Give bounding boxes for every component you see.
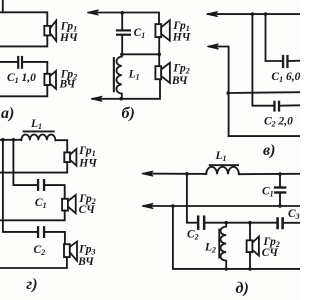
wire: C1 out to right edge [289, 60, 300, 62]
wire: Gr3 return [0, 257, 67, 268]
node: middle left [120, 53, 124, 57]
node: top rail x=265 [264, 12, 268, 16]
capacitor C2 [197, 215, 206, 230]
wire: down from tap to C2 [187, 174, 197, 223]
wire: bottom rail [93, 79, 160, 99]
svg-text:L2: L2 [204, 241, 216, 254]
input arrow top [87, 10, 98, 15]
node: bus B tap [12, 138, 16, 142]
wire: Gr2 return [0, 211, 65, 221]
wire: Gr1 return [0, 162, 67, 173]
wire: branch to C1 [266, 14, 282, 61]
node: bottom of speaker branch [248, 267, 252, 271]
wire: top rail [89, 13, 159, 25]
loudspeaker Gr1 (НЧ) [44, 21, 56, 41]
capacitor C1 [37, 179, 45, 191]
node: top of L2 [224, 221, 228, 225]
node: junction top of C1 branch [121, 11, 125, 15]
inductor L2 (vertical coil) [218, 223, 226, 269]
node: top of C1 [278, 172, 282, 176]
svg-text:б): б) [122, 105, 135, 122]
capacitor C1 (vertical) [274, 174, 286, 206]
wire: top rail left of L1 [144, 173, 207, 175]
svg-text:НЧ: НЧ [172, 32, 191, 44]
svg-text:СЧ: СЧ [262, 247, 279, 259]
wire: top rail to Gr1 [0, 12, 47, 26]
input arrow 1 [142, 171, 153, 176]
node: bus A tap [1, 138, 5, 142]
svg-text:С1: С1 [35, 197, 47, 210]
svg-text:НЧ: НЧ [78, 158, 97, 170]
svg-text:Гр1: Гр1 [78, 145, 95, 158]
svg-text:L1: L1 [30, 118, 42, 131]
svg-text:С2 2,0: С2 2,0 [264, 115, 293, 128]
capacitor C1 1,0 [17, 56, 23, 69]
node: top of speaker branch [248, 221, 252, 225]
wire: second input down the left vertical [209, 47, 229, 137]
wire: C2 to L2 to speaker branch [205, 222, 276, 224]
wire: C3 out to right edge [284, 222, 300, 224]
loudspeaker Gr2 (СЧ) with branch wires [247, 223, 259, 269]
loudspeaker Gr2 (СЧ) [62, 195, 76, 213]
wire: down to C1 [121, 13, 123, 30]
svg-text:L1: L1 [215, 150, 227, 163]
wire: second rail to right edge [144, 205, 300, 207]
svg-text:в): в) [263, 142, 275, 159]
wire: input stub top left [2, 0, 4, 12]
svg-text:С1: С1 [262, 186, 274, 199]
input arrow 2 [142, 203, 153, 208]
loudspeaker Gr1 (НЧ) [155, 20, 169, 41]
wire: coil to Gr1 [55, 140, 67, 152]
inductor L1 (horizontal coil) [206, 164, 239, 174]
svg-text:Гр3: Гр3 [78, 243, 95, 256]
wire: branch to C2 [252, 14, 273, 106]
svg-text:д): д) [236, 280, 249, 297]
node: top rail x=252 [251, 12, 255, 16]
wire: bus B down to C1 branch [13, 140, 36, 185]
capacitor C1 [116, 29, 131, 36]
wire: from C1 to Gr2 [24, 62, 48, 74]
wire: top rail right of L1 to edge [239, 173, 300, 175]
svg-text:ВЧ: ВЧ [77, 256, 94, 268]
svg-text:L1: L1 [128, 68, 140, 81]
svg-text:ВЧ: ВЧ [59, 79, 76, 91]
wire: second loop top rail left part [0, 61, 17, 63]
capacitor C3 [276, 217, 284, 229]
svg-text:С2: С2 [187, 229, 199, 242]
svg-text:НЧ: НЧ [59, 32, 78, 44]
inductor L1 (vertical coil) [113, 57, 122, 99]
capacitor C2 2,0 [273, 101, 280, 112]
node: tap to C2 branch [185, 172, 189, 176]
wire: middle output to right edge [228, 91, 300, 94]
input arrow 1 [207, 12, 218, 17]
svg-text:Гр2: Гр2 [172, 62, 189, 75]
wire: middle link [122, 53, 159, 55]
wire: C2 to Gr3 [45, 232, 65, 244]
node: middle right [157, 53, 161, 57]
node: bottom of coil [119, 97, 123, 101]
node: junction on left vertical [226, 91, 230, 95]
svg-text:СЧ: СЧ [79, 204, 96, 216]
node: bottom of L2 [224, 267, 228, 271]
input arrow bottom [91, 96, 102, 101]
node: bottom of C1 [278, 204, 282, 208]
wire: C2 out to right edge [280, 104, 300, 106]
wire: between speakers [158, 37, 160, 66]
loudspeaker Gr1 (НЧ) [64, 149, 76, 166]
loudspeaker Gr2 (ВЧ) [155, 63, 170, 83]
svg-text:ВЧ: ВЧ [171, 75, 188, 87]
wire: bottom rail to right edge [229, 135, 300, 137]
wire: bus A down to C2 branch [3, 140, 37, 232]
wire: down to bottom rail, bottom rail to right edge [173, 206, 300, 269]
svg-text:г): г) [26, 276, 37, 293]
loudspeaker Gr2 (ВЧ) [44, 71, 56, 89]
svg-text:С1: С1 [134, 27, 146, 40]
svg-text:С1 6,0: С1 6,0 [271, 71, 300, 84]
svg-text:С1 1,0: С1 1,0 [7, 72, 36, 85]
capacitor C1 6,0 [282, 55, 289, 68]
loudspeaker Gr3 (ВЧ) [64, 242, 77, 261]
svg-text:С2: С2 [34, 244, 46, 257]
wire: top rail to right edge [208, 13, 300, 15]
capacitor C2 [37, 226, 45, 238]
input arrow 2 [207, 44, 218, 49]
wire: C1 to middle node [121, 36, 123, 55]
inductor L1 (horizontal coil) [21, 131, 55, 141]
wire: Gr2 bottom return rail [0, 85, 47, 96]
wire: Gr1 bottom return rail [0, 35, 47, 46]
svg-text:С3: С3 [288, 208, 300, 221]
node: tap to bottom rail [171, 204, 175, 208]
svg-text:а): а) [1, 105, 14, 122]
wire: top rail from left edge [0, 139, 21, 141]
wire: C1 to Gr2 [45, 185, 64, 199]
